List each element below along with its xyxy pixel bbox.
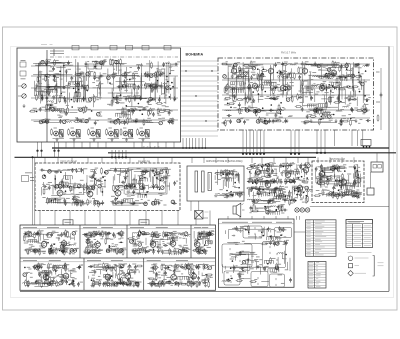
wire (99, 72, 101, 95)
jct (263, 68, 265, 70)
lbl (50, 107, 53, 109)
wire (226, 169, 228, 175)
ladder (53, 109, 64, 113)
R381 (95, 178, 97, 185)
lbl (231, 84, 234, 86)
wire (64, 172, 66, 180)
jct (275, 87, 277, 89)
lbl (133, 119, 135, 121)
wire (291, 68, 293, 99)
tag C (96, 64, 102, 69)
jct (227, 103, 229, 105)
wire (120, 69, 122, 98)
L281 (343, 106, 349, 107)
C90 (115, 101, 120, 104)
lbl (272, 94, 275, 96)
wire (115, 202, 126, 204)
lbl (268, 181, 272, 183)
lbl (226, 61, 228, 63)
lbl (331, 92, 334, 94)
L7 (86, 72, 90, 76)
C513 (289, 163, 292, 168)
wire (56, 74, 72, 76)
L51 (66, 122, 72, 123)
C123 (153, 86, 158, 89)
lbl (266, 114, 269, 116)
lbl (130, 107, 133, 109)
lbl (364, 81, 367, 83)
R191 (255, 109, 257, 116)
ladder (72, 202, 83, 206)
C355 (324, 75, 329, 78)
wire (108, 170, 131, 172)
lbl (55, 94, 58, 96)
lbl (357, 78, 359, 80)
wire (303, 169, 305, 177)
lbl (237, 62, 241, 64)
lbl (269, 162, 273, 164)
blob (315, 66, 316, 68)
wire (78, 82, 80, 99)
lbl (77, 107, 81, 109)
lbl (304, 79, 308, 81)
C232 (244, 107, 247, 112)
wire (113, 93, 115, 103)
blob (131, 106, 133, 109)
ladder (152, 202, 159, 206)
wire (129, 202, 141, 204)
R182 (225, 85, 227, 92)
lbl (112, 99, 114, 101)
R120 (111, 99, 113, 106)
svg-text:FM 10.7 MHz: FM 10.7 MHz (281, 52, 297, 55)
lbl (140, 84, 143, 86)
wire (316, 106, 338, 108)
lbl (78, 196, 80, 198)
lbl (119, 185, 123, 187)
blob (321, 95, 323, 98)
bottom bound (20, 290, 389, 292)
blob (137, 84, 138, 87)
L253 (246, 109, 250, 113)
pin (324, 152, 326, 154)
L292 (307, 64, 313, 65)
lbl (295, 177, 297, 179)
C223 (273, 86, 278, 89)
C478 (229, 193, 234, 196)
lbl (141, 173, 144, 175)
jct (67, 185, 69, 187)
lbl (281, 171, 284, 173)
C390 (74, 198, 79, 201)
lbl (163, 108, 165, 110)
blob (129, 118, 131, 121)
C433 (158, 201, 161, 206)
L31 (92, 61, 98, 62)
wire (156, 178, 158, 184)
C336 (339, 75, 342, 80)
lbl (284, 108, 286, 110)
L258 (277, 110, 281, 114)
C439 (155, 169, 158, 174)
wire (85, 86, 87, 100)
R147 (157, 70, 159, 77)
L401 (77, 184, 81, 188)
lbl (100, 177, 103, 179)
lbl (93, 174, 95, 176)
lbl (233, 192, 237, 194)
lbl (80, 179, 84, 181)
R268 (236, 99, 243, 101)
L188 (256, 120, 260, 124)
lbl (284, 164, 287, 166)
jct (306, 177, 308, 179)
L5 (55, 110, 61, 111)
long wire (222, 109, 370, 111)
blob (122, 183, 124, 185)
wire (321, 98, 328, 100)
C391 (72, 197, 75, 202)
wire (338, 90, 340, 103)
C419 (40, 169, 45, 172)
C499 (280, 163, 283, 168)
C320 (350, 107, 353, 112)
lbl (351, 96, 353, 98)
lbl (58, 199, 62, 201)
wire (96, 87, 98, 98)
coil unit 4 (109, 131, 114, 136)
blob (143, 81, 145, 83)
lbl (261, 175, 265, 177)
lbl (316, 121, 320, 123)
lbl (340, 109, 344, 111)
lbl (66, 197, 70, 199)
wire (54, 109, 61, 111)
C153 (162, 62, 165, 67)
wire (140, 63, 142, 88)
blob (267, 178, 268, 181)
lbl (224, 99, 228, 101)
blob (133, 80, 135, 83)
wire (163, 82, 165, 94)
ladder (59, 182, 68, 186)
wire (136, 179, 138, 183)
wire (147, 185, 149, 190)
lbl (41, 61, 43, 63)
C80 (46, 86, 51, 89)
lbl (249, 181, 252, 183)
lbl (71, 193, 73, 195)
wire (33, 74, 64, 76)
lbl (82, 118, 84, 120)
blob (45, 107, 47, 109)
R322 (364, 103, 366, 110)
wire (282, 90, 284, 98)
blob (273, 164, 275, 166)
lbl (309, 108, 313, 110)
pin (252, 153, 254, 155)
R360 (309, 115, 316, 117)
blob (304, 91, 305, 93)
lbl (81, 72, 83, 74)
lbl (152, 108, 155, 110)
wire (58, 186, 70, 188)
lbl (124, 107, 127, 109)
R231 (291, 95, 293, 102)
C190 (261, 72, 264, 77)
lbl (258, 178, 261, 180)
lbl (81, 186, 83, 188)
lbl (155, 84, 157, 86)
wire (285, 92, 287, 99)
lbl (75, 117, 77, 119)
lbl (238, 71, 242, 73)
wire (117, 59, 119, 75)
jct (129, 79, 131, 81)
jct (346, 69, 348, 71)
pin (125, 156, 127, 158)
jct (46, 76, 48, 78)
lbl (133, 95, 136, 97)
lbl (224, 104, 228, 106)
wire (362, 86, 364, 104)
wire (181, 130, 219, 132)
lbl (260, 76, 264, 78)
pin (290, 153, 292, 155)
C461 (121, 181, 126, 184)
R350 (340, 119, 342, 126)
MF box (35, 163, 180, 211)
lbl (347, 73, 350, 75)
lbl (148, 73, 151, 75)
L72 (97, 112, 101, 116)
wire (57, 74, 64, 76)
jct (252, 91, 254, 93)
lbl (228, 65, 231, 67)
wire (165, 89, 167, 104)
lbl (247, 70, 250, 72)
wire (47, 170, 61, 172)
R208 (261, 74, 263, 81)
pin (245, 153, 247, 155)
lbl (170, 118, 174, 120)
jct (365, 70, 367, 72)
lbl (176, 180, 178, 182)
L457 (161, 186, 165, 190)
wire (85, 66, 87, 81)
jct (126, 105, 128, 107)
lbl (167, 175, 170, 177)
wire (294, 174, 296, 176)
C61 (76, 117, 79, 122)
wire (310, 72, 312, 100)
lbl (78, 96, 81, 98)
wire (31, 109, 178, 111)
lbl (109, 104, 112, 106)
C385 (72, 195, 77, 198)
jct (159, 189, 161, 191)
R146 (148, 109, 150, 116)
L517 (307, 164, 311, 168)
wire (68, 93, 70, 103)
C1 (65, 69, 68, 74)
lbl (41, 119, 46, 121)
jct (146, 191, 148, 193)
lbl (113, 59, 115, 61)
wire (308, 75, 310, 96)
C306 (325, 86, 328, 91)
lbl (88, 118, 91, 120)
gnd (310, 119, 313, 123)
wire (89, 142, 91, 148)
blob (96, 101, 98, 103)
lbl (238, 192, 241, 194)
wire (166, 62, 168, 93)
C173 (160, 72, 165, 75)
L266 (249, 67, 255, 68)
lbl (228, 177, 231, 179)
lbl (70, 119, 74, 121)
C431 (125, 184, 128, 189)
lbl (54, 106, 57, 108)
ladder (44, 90, 57, 94)
lbl (256, 108, 259, 110)
jct (320, 118, 322, 120)
lbl (330, 72, 334, 74)
R528 (297, 168, 299, 175)
lbl (123, 112, 127, 114)
lbl (327, 111, 331, 113)
R238 (240, 69, 242, 76)
jct (234, 182, 236, 184)
R487 (235, 192, 242, 194)
C377 (90, 176, 95, 179)
wire (300, 163, 302, 173)
wire (66, 71, 68, 83)
lbl (233, 171, 237, 173)
lbl (254, 182, 258, 184)
blob (253, 68, 255, 71)
wire (112, 176, 114, 184)
lbl (158, 178, 162, 180)
jct (65, 190, 67, 192)
C522 (271, 169, 274, 174)
lbl (121, 199, 124, 201)
jct (333, 114, 335, 116)
lbl (145, 170, 147, 172)
lbl (278, 77, 281, 79)
L447 (160, 170, 164, 174)
C94 (123, 120, 126, 125)
lbl (81, 185, 84, 187)
L230 (277, 76, 283, 77)
lbl (290, 85, 294, 87)
IF box (218, 58, 374, 130)
blob (318, 106, 320, 108)
wire (108, 92, 133, 94)
lbl (80, 80, 83, 82)
lbl (361, 107, 364, 109)
wire (251, 188, 269, 190)
jct (230, 191, 232, 193)
R464 (131, 183, 133, 190)
R312 (328, 96, 330, 103)
C13 (41, 96, 44, 101)
R479 (225, 194, 232, 196)
wire (253, 64, 258, 66)
wire (250, 87, 252, 96)
L218 (260, 74, 264, 78)
ladder (283, 171, 294, 175)
wire (310, 110, 323, 112)
wire (284, 200, 288, 202)
R125 (157, 108, 159, 115)
lbl (48, 95, 51, 97)
lbl (277, 118, 280, 120)
wire (314, 89, 316, 102)
C10 (67, 61, 70, 66)
jct (256, 111, 258, 113)
C175 (149, 84, 152, 89)
lbl FM (41, 43, 47, 45)
R476 (214, 172, 221, 174)
lbl (42, 197, 45, 199)
R150 (154, 74, 161, 76)
C430 (114, 197, 117, 202)
lbl (169, 168, 171, 170)
jct (185, 70, 186, 71)
blob (291, 80, 293, 82)
R202 (258, 74, 260, 81)
pin (121, 156, 123, 158)
R180 (261, 70, 268, 72)
C309 (351, 108, 354, 113)
L229 (223, 75, 227, 79)
lbl (341, 102, 345, 104)
wire (119, 168, 121, 176)
lbl (89, 200, 92, 202)
lbl (127, 95, 131, 97)
R473 (220, 170, 222, 177)
wire (100, 178, 102, 193)
blob (95, 75, 97, 77)
lbl (49, 70, 53, 72)
wire (273, 64, 275, 80)
wire (275, 188, 284, 190)
pin (40, 150, 42, 152)
L79 (92, 61, 98, 62)
blob (262, 109, 264, 112)
wire (225, 87, 249, 89)
lbl (66, 178, 69, 180)
lbl (254, 178, 257, 180)
R217 (259, 116, 261, 123)
C177 (274, 62, 277, 67)
wire (317, 64, 339, 66)
wire (114, 202, 144, 204)
top boundary wire (250, 46, 389, 48)
lbl (73, 184, 77, 186)
wire (73, 185, 75, 195)
blob (247, 80, 249, 82)
lbl (58, 184, 61, 186)
wire (181, 95, 219, 97)
lbl (58, 170, 61, 172)
svg-text:T·E·L·E·F·: T·E·L·E·F· (143, 145, 161, 149)
lbl (286, 74, 288, 76)
lbl (94, 67, 97, 69)
lbl (259, 177, 261, 179)
